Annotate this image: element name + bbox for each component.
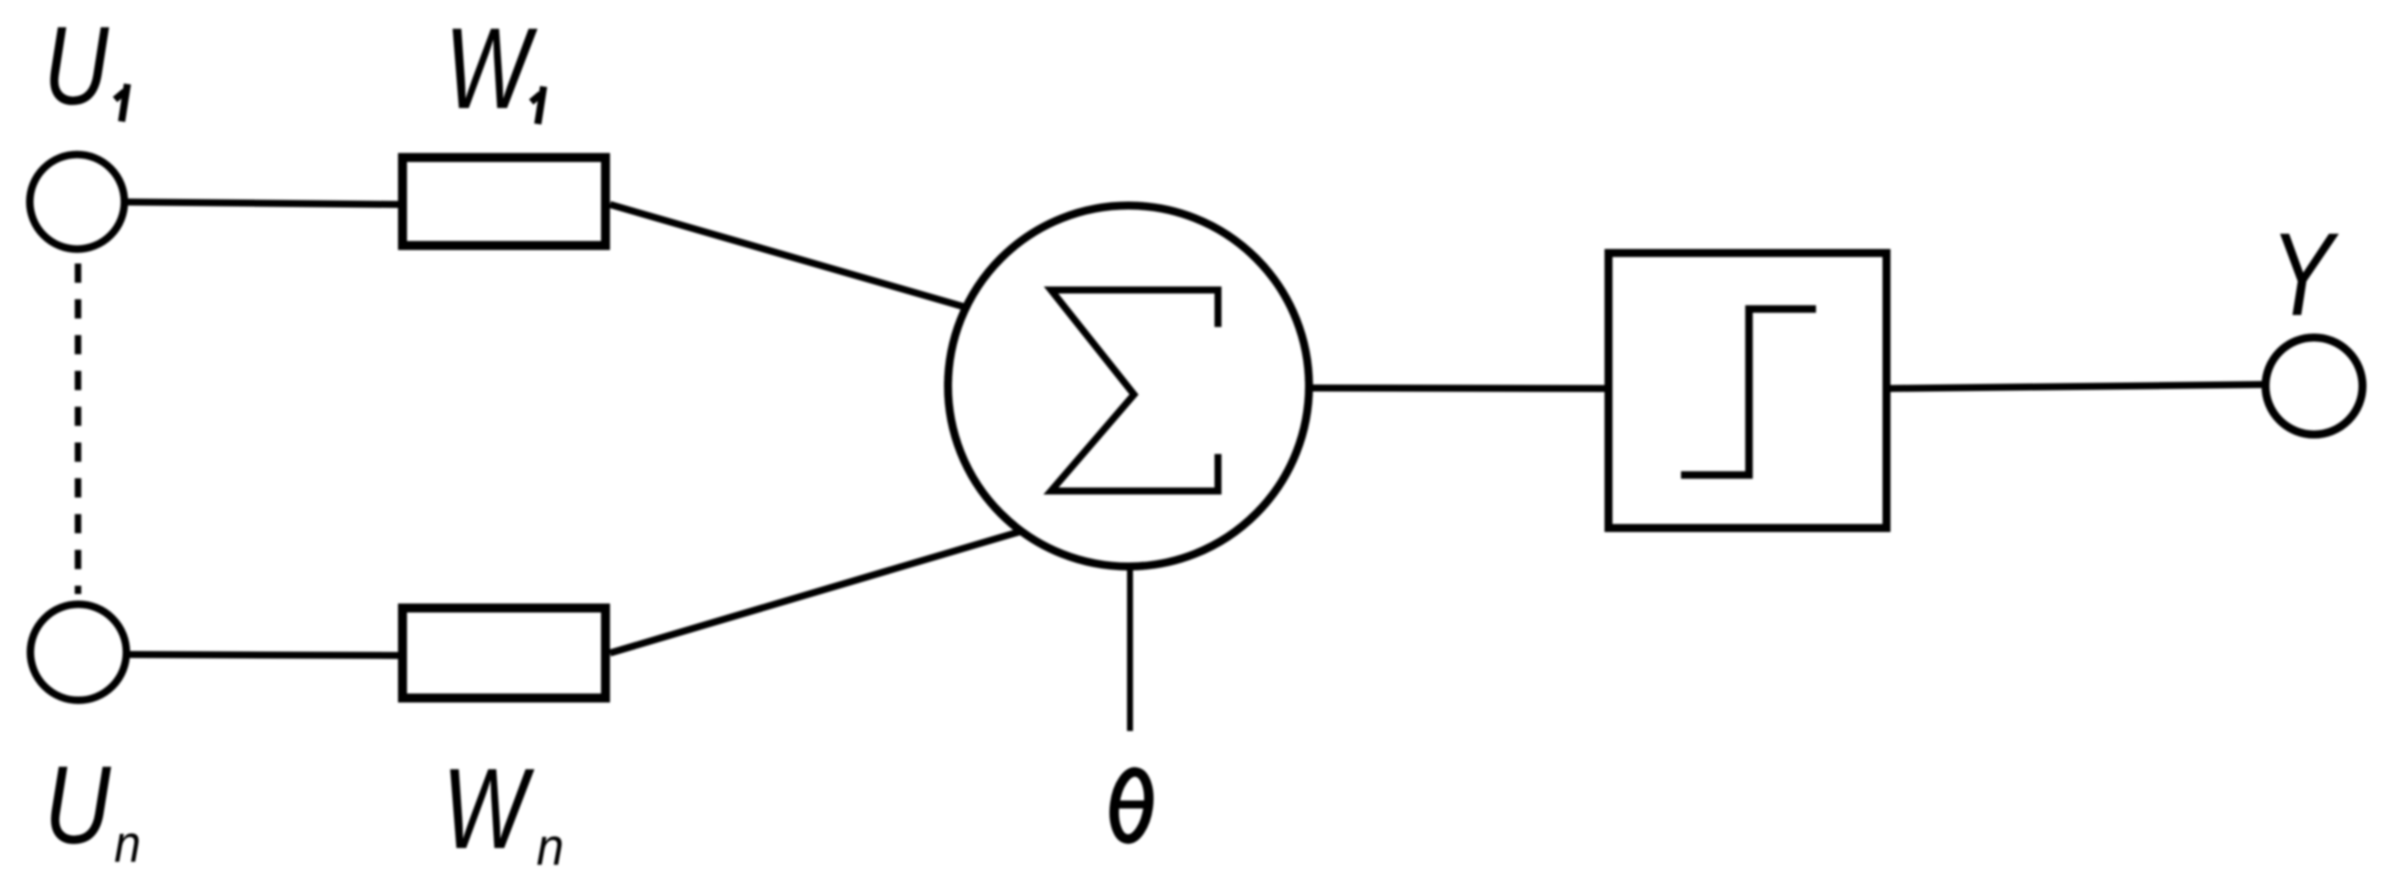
svg-text:U: U [44,4,110,128]
svg-text:Y: Y [2270,208,2339,341]
svg-text:W: W [445,4,538,133]
svg-text:W: W [442,745,535,873]
svg-text:U: U [44,743,111,867]
svg-text:n: n [537,817,564,876]
svg-text:n: n [114,814,141,874]
